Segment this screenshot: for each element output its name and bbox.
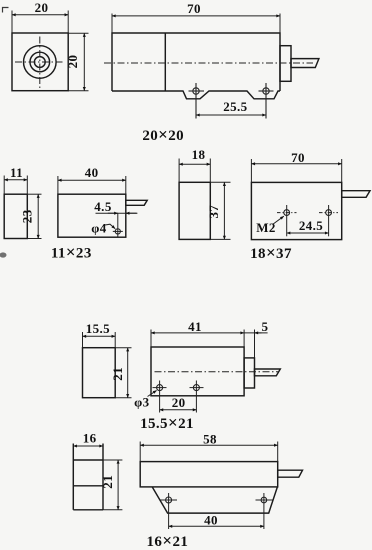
svg-text:11×23: 11×23 bbox=[51, 242, 92, 261]
svg-text:4.5: 4.5 bbox=[94, 199, 112, 214]
svg-text:21: 21 bbox=[110, 367, 125, 381]
svg-text:70: 70 bbox=[187, 1, 201, 16]
svg-text:16: 16 bbox=[83, 431, 97, 446]
svg-text:18×37: 18×37 bbox=[250, 243, 292, 262]
svg-text:41: 41 bbox=[188, 319, 202, 334]
svg-text:20: 20 bbox=[35, 0, 49, 15]
svg-text:20: 20 bbox=[172, 395, 186, 410]
svg-text:20: 20 bbox=[65, 55, 80, 69]
svg-text:18: 18 bbox=[192, 147, 206, 162]
svg-text:15.5×21: 15.5×21 bbox=[140, 413, 194, 432]
svg-text:11: 11 bbox=[10, 165, 23, 180]
svg-text:21: 21 bbox=[100, 475, 115, 489]
svg-text:M2: M2 bbox=[256, 220, 276, 235]
svg-text:5: 5 bbox=[262, 319, 269, 334]
svg-text:58: 58 bbox=[203, 432, 217, 447]
svg-text:20×20: 20×20 bbox=[142, 125, 184, 144]
svg-text:15.5: 15.5 bbox=[86, 321, 110, 336]
svg-text:40: 40 bbox=[204, 512, 218, 527]
svg-text:16×21: 16×21 bbox=[147, 531, 189, 550]
svg-text:23: 23 bbox=[19, 209, 34, 223]
svg-text:24.5: 24.5 bbox=[299, 218, 323, 233]
svg-text:40: 40 bbox=[85, 165, 99, 180]
svg-text:φ3: φ3 bbox=[134, 395, 150, 410]
svg-text:70: 70 bbox=[291, 150, 305, 165]
svg-text:37: 37 bbox=[206, 205, 221, 219]
svg-text:25.5: 25.5 bbox=[223, 99, 247, 114]
svg-text:φ4: φ4 bbox=[91, 220, 107, 235]
